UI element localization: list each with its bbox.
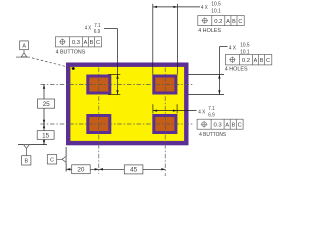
svg-text:4 X: 4 X — [85, 26, 92, 32]
svg-text:45: 45 — [130, 167, 138, 174]
svg-text:7.1: 7.1 — [94, 23, 100, 29]
svg-text:B: B — [231, 123, 235, 129]
svg-text:C: C — [50, 157, 54, 163]
svg-text:20: 20 — [77, 167, 85, 174]
svg-text:4 X: 4 X — [201, 5, 208, 11]
svg-text:4 X: 4 X — [229, 46, 237, 52]
svg-text:C: C — [238, 19, 242, 25]
svg-text:15: 15 — [42, 132, 50, 139]
svg-text:6.9: 6.9 — [208, 112, 214, 118]
svg-text:10.1: 10.1 — [211, 8, 221, 14]
svg-text:25: 25 — [43, 101, 51, 108]
svg-text:A: A — [226, 19, 230, 25]
svg-text:6.9: 6.9 — [94, 29, 100, 35]
svg-text:C: C — [266, 58, 270, 64]
svg-text:0.2: 0.2 — [242, 58, 250, 64]
svg-text:A: A — [22, 43, 26, 49]
svg-text:A: A — [254, 58, 258, 64]
svg-text:B: B — [260, 58, 264, 64]
svg-text:0.3: 0.3 — [213, 123, 222, 129]
svg-text:10.5: 10.5 — [211, 2, 221, 8]
svg-text:B: B — [25, 159, 29, 165]
svg-text:C: C — [96, 40, 100, 46]
svg-text:A: A — [225, 123, 229, 129]
svg-text:4 HOLES: 4 HOLES — [198, 28, 221, 34]
svg-text:4 BUTTONS: 4 BUTTONS — [199, 132, 227, 138]
svg-text:B: B — [90, 40, 94, 46]
svg-text:4 BUTTONS: 4 BUTTONS — [56, 50, 86, 56]
svg-text:B: B — [232, 19, 236, 25]
svg-text:4 X: 4 X — [198, 109, 206, 115]
svg-text:A: A — [84, 40, 88, 46]
svg-text:7.1: 7.1 — [208, 106, 214, 112]
svg-text:10.5: 10.5 — [240, 43, 249, 49]
svg-text:4 HOLES: 4 HOLES — [225, 66, 248, 72]
svg-text:0.2: 0.2 — [214, 19, 222, 25]
svg-text:C: C — [238, 123, 242, 129]
svg-text:0.3: 0.3 — [72, 40, 81, 46]
